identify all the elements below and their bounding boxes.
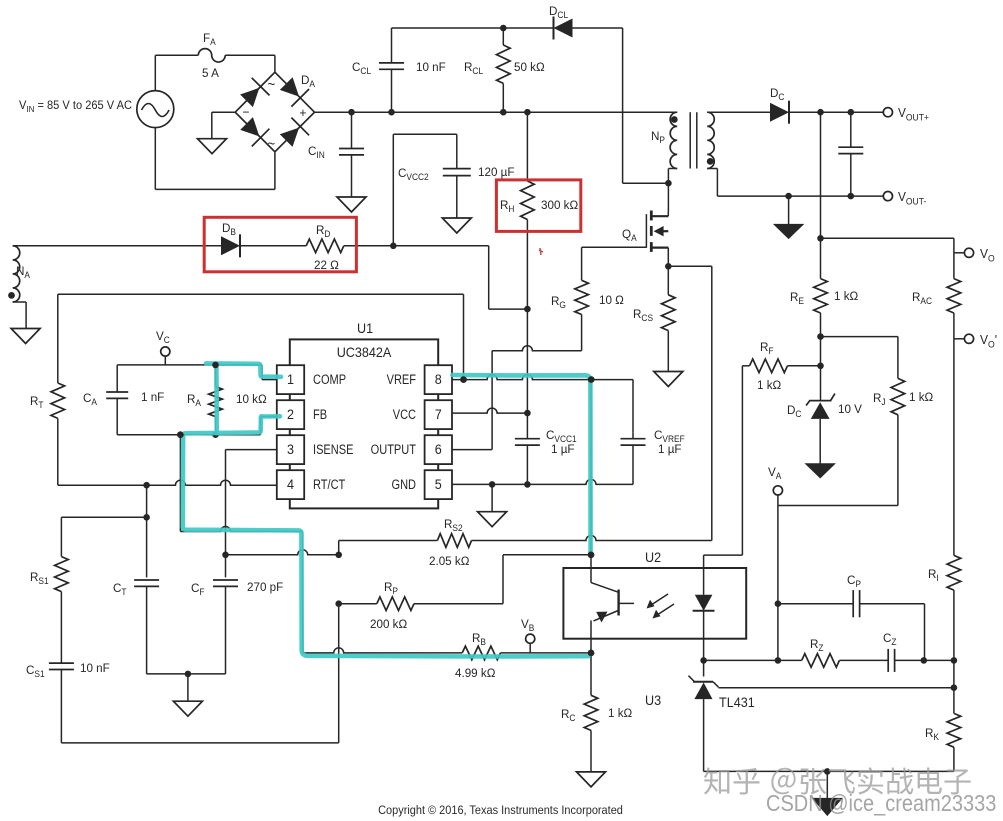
wire CZ to RI (924, 659, 954, 661)
label 50 kohm (514, 60, 545, 74)
terminal VO' (954, 334, 974, 343)
node CIN junction (348, 109, 355, 116)
wire VA net (778, 495, 898, 660)
svg-text:~: ~ (268, 136, 276, 151)
wire RS2 row (339, 541, 438, 555)
watermark csdn (766, 790, 996, 817)
wire VOUT- rail (789, 195, 883, 197)
bridge diode lower-left (240, 117, 269, 146)
resistor RK (947, 713, 961, 771)
label DC zener (787, 403, 801, 420)
wire NA bottom to ground (13, 302, 26, 329)
node RA bottom junction (212, 431, 219, 438)
node RF junction (817, 363, 824, 370)
diode DC output (770, 101, 789, 124)
svg-text:COMP: COMP (313, 372, 346, 387)
label VB (521, 617, 535, 634)
node over teal RB (588, 650, 595, 657)
label RF (760, 340, 774, 357)
wire RH to VCC (526, 220, 528, 414)
node primary-snubber junction (665, 180, 672, 187)
wire LED anode top (704, 555, 743, 568)
svg-text:10 V: 10 V (838, 402, 862, 416)
svg-text:U1: U1 (357, 321, 373, 336)
node RH bottom junction (524, 306, 531, 313)
label FA (203, 31, 216, 48)
label RS2 (444, 517, 463, 534)
resistor RT (51, 383, 65, 485)
wire VREF vertical (590, 380, 592, 568)
label RCL (464, 60, 483, 77)
wire gnd stem (187, 674, 189, 701)
capacitor CF (213, 580, 238, 674)
label 5 A (202, 66, 219, 80)
wire RZ row left (704, 659, 778, 661)
svg-text:1 µF: 1 µF (551, 442, 575, 456)
U1 pin name VREF (387, 372, 417, 387)
label CIN (308, 144, 325, 161)
svg-text:1 kΩ: 1 kΩ (909, 390, 933, 404)
resistor RJ (891, 378, 905, 414)
wire RG bottom (492, 315, 581, 351)
label U2 (645, 550, 661, 565)
wire RD node to RH (489, 246, 528, 309)
label RZ (810, 637, 824, 654)
ground below bridge (198, 139, 227, 154)
svg-text:50 kΩ: 50 kΩ (514, 60, 545, 74)
label CCL (352, 60, 371, 77)
capacitor CVCC1 (515, 413, 540, 484)
svg-text:270 pF: 270 pF (247, 580, 283, 594)
resistor RF (750, 359, 821, 373)
wire gate (582, 246, 647, 248)
svg-text:1: 1 (287, 372, 294, 387)
wire bottom loop (61, 604, 338, 743)
wire RS2 to sense (472, 536, 712, 541)
label 10 kohm (236, 392, 267, 406)
U1 pin name RT/CT (313, 477, 346, 492)
svg-text:VREF: VREF (387, 372, 417, 387)
ground below RCS (654, 372, 683, 387)
label DCL (549, 4, 568, 21)
capacitor CZ (888, 649, 924, 672)
ground below NA (11, 329, 40, 344)
label CVCC1 (546, 428, 577, 445)
svg-text:10 nF: 10 nF (416, 60, 446, 74)
label DC (770, 86, 784, 103)
node RB-RC junction (588, 650, 595, 657)
node RE-RJ junction (817, 333, 824, 340)
capacitor CVCC2 branch (393, 134, 471, 246)
label CP (847, 573, 861, 590)
wire FB net down (179, 435, 181, 532)
red tick mark (539, 248, 543, 255)
svg-text:VIN = 85 V to 265 V AC: VIN = 85 V to 265 V AC (19, 100, 132, 114)
svg-text:GND: GND (391, 477, 416, 492)
wire RZ to CZ (839, 659, 888, 661)
AC source VIN (137, 91, 174, 128)
label RJ value (909, 390, 933, 404)
label RB (472, 631, 486, 648)
wire secondary bottom (707, 169, 788, 197)
wire RE-top to VO branch (821, 238, 954, 278)
node RH top junction (524, 109, 531, 116)
node over teal collector (588, 552, 595, 559)
copyright text (378, 805, 623, 817)
label RF value (757, 378, 781, 392)
wire bottom gnd stem (826, 771, 828, 798)
resistor RP (377, 597, 414, 611)
svg-text:−: − (242, 105, 249, 119)
svg-text:1 kΩ: 1 kΩ (834, 289, 858, 303)
label 10 nF (416, 60, 446, 74)
aux winding NA (13, 246, 20, 302)
label DA (301, 73, 315, 90)
U1 pin name FB (313, 407, 327, 422)
svg-text:300 kΩ: 300 kΩ (541, 198, 578, 212)
wire VREF top loop (58, 294, 464, 383)
node over teal vref loop (460, 376, 467, 383)
wire RS1 to CS1 (60, 592, 62, 664)
node CF-RS2 junction (335, 552, 342, 559)
label RC value (608, 706, 632, 720)
bridge rectifier DA diamond (235, 72, 314, 152)
label RG (551, 294, 566, 311)
diode DB (221, 234, 240, 257)
svg-text:7: 7 (435, 407, 442, 422)
svg-text:4.99 kΩ: 4.99 kΩ (455, 666, 495, 680)
wire pin8 VREF (452, 375, 591, 380)
fuse FA (198, 49, 225, 62)
svg-text:FB: FB (313, 407, 327, 422)
red box around DB RD (204, 217, 356, 271)
resistor RD (306, 239, 344, 253)
node over teal pin8 (588, 376, 595, 383)
power ground below zener (806, 464, 835, 478)
wire VOUT- ground stem (788, 196, 790, 224)
svg-text:VCC: VCC (393, 407, 416, 422)
node RZ-VA junction (775, 657, 782, 664)
svg-text:~: ~ (268, 77, 276, 92)
node bottom gnd junction (824, 768, 831, 775)
label RJ (873, 391, 886, 408)
label RH (500, 198, 514, 215)
label RA (187, 392, 201, 409)
label QA (622, 227, 637, 244)
resistor RE (814, 279, 828, 313)
wire primary bottom to QA drain (667, 183, 669, 211)
wire RP right to collector (414, 555, 590, 604)
transformer primary NP winding (670, 112, 677, 168)
node VOUT- b (848, 193, 855, 200)
svg-text:200 kΩ: 200 kΩ (370, 617, 407, 631)
wire pin4 RT/CT (58, 480, 277, 485)
node CCL junction (388, 109, 395, 116)
wire RB to emitter node (501, 652, 592, 654)
label VO (980, 247, 995, 264)
wire main bus (315, 111, 678, 113)
U1 pin 7 box (425, 400, 452, 429)
node RCL bottom junction (500, 109, 507, 116)
svg-text:6: 6 (435, 442, 442, 457)
node collector junction (588, 552, 595, 559)
node ref-RK junction (951, 684, 958, 691)
wire bus to RH (526, 112, 528, 181)
ground below RC (577, 772, 606, 787)
teal highlight COMP path (206, 363, 281, 376)
node RS1 junction (143, 514, 150, 521)
resistor RI (947, 555, 961, 660)
svg-text:2.05 kΩ: 2.05 kΩ (429, 554, 469, 568)
optocoupler U2 box (563, 568, 746, 639)
terminal VA (773, 486, 782, 495)
terminal VOUT+ (883, 108, 892, 117)
opto LED (693, 568, 715, 639)
svg-text:10 Ω: 10 Ω (599, 293, 624, 307)
svg-text:10 kΩ: 10 kΩ (236, 392, 267, 406)
svg-text:Copyright © 2016, Texas Instru: Copyright © 2016, Texas Instruments Inco… (378, 805, 623, 817)
terminal VB (526, 634, 535, 653)
svg-text:1 kΩ: 1 kΩ (757, 378, 781, 392)
node RCL top junction (500, 25, 507, 32)
wire RF left down (742, 366, 749, 555)
wire pin5 GND (452, 479, 633, 484)
label 10 nF (80, 661, 110, 675)
U1 pin 8 number (435, 372, 442, 387)
wire pin7 VCC (452, 408, 527, 413)
capacitor CIN (339, 112, 364, 197)
svg-text:4: 4 (287, 477, 294, 492)
label VIN = 85 V to 265 V AC (19, 100, 132, 114)
bridge diode lower-right (280, 118, 309, 147)
label RD (316, 223, 330, 240)
label 22 ohm (314, 258, 339, 272)
svg-text:UC3842A: UC3842A (337, 345, 392, 360)
node QA source junction (665, 263, 672, 270)
ground below CIN (337, 197, 366, 212)
label 300 kohm (541, 198, 578, 212)
U1 pin 2 number (287, 407, 294, 422)
svg-text:5: 5 (435, 477, 442, 492)
wire to RJ (821, 337, 898, 379)
label DB (222, 221, 236, 238)
wire VREF to CVREF (591, 380, 633, 433)
bridge diode upper-left (240, 78, 269, 107)
TL431 U3 symbol (689, 676, 719, 772)
U1 pin name GND (391, 477, 416, 492)
svg-text:OUTPUT: OUTPUT (371, 442, 417, 457)
resistor RC (584, 653, 598, 772)
resistor RH (521, 181, 535, 220)
transformer primary phase dot (671, 116, 678, 123)
wire secondary top (707, 111, 770, 113)
wire RD to CVCC2 node (344, 245, 489, 247)
transformer secondary phase dot (707, 158, 714, 165)
node over teal RA top (212, 362, 219, 369)
wire ac-top-left (155, 55, 198, 90)
resistor RS2 (437, 534, 471, 548)
wire CF to RS2 vert (226, 550, 339, 555)
wire VOUT+ down to RE (820, 112, 822, 278)
teal highlight FB path (183, 416, 589, 656)
label 10 ohm (599, 293, 624, 307)
node CF top junction (222, 552, 229, 559)
resistor RCS (662, 266, 676, 371)
resistor RA (209, 365, 223, 435)
label 10 V (838, 402, 862, 416)
wire DB to RD (240, 245, 306, 247)
node GND sym junction (489, 481, 496, 488)
wire LED cathode to TL431 (703, 639, 705, 677)
resistor RAC (947, 279, 961, 313)
power ground bottom right (813, 798, 842, 815)
U1 pin name OUTPUT (371, 442, 417, 457)
wire DC to VOUT+ (789, 111, 883, 113)
capacitor CT (134, 580, 159, 674)
resistor RG (575, 280, 589, 314)
node RI bottom junction (951, 657, 958, 664)
svg-text:RT/CT: RT/CT (313, 477, 346, 492)
wire CA-RA top (117, 365, 277, 380)
svg-text:10 nF: 10 nF (80, 661, 110, 675)
label NA (16, 264, 30, 281)
wire ac-bottom (155, 128, 275, 190)
label U1 (357, 321, 373, 336)
wire primary bottom (668, 169, 677, 184)
power ground VOUT- (774, 224, 803, 238)
wire zener to ground (819, 419, 821, 464)
teal highlight VREF path (453, 375, 591, 555)
svg-text:CSDN @ice_cream23333: CSDN @ice_cream23333 (766, 790, 996, 817)
label RCS (633, 307, 653, 324)
node FB divider junction (177, 431, 184, 438)
node CT-CF gnd junction (185, 671, 192, 678)
wire CT-CF bottom (147, 673, 226, 675)
label CF (191, 581, 205, 598)
label 200 kohm (370, 617, 407, 631)
label RS1 (30, 570, 49, 587)
label VA (768, 465, 782, 482)
svg-text:1 nF: 1 nF (141, 390, 164, 404)
watermark zhihu (703, 766, 972, 799)
U1 pin name COMP (313, 372, 346, 387)
label RB value (455, 666, 495, 680)
capacitor CS1 (49, 663, 74, 743)
U1 pin 7 number (435, 407, 442, 422)
transformer secondary NS winding (707, 112, 714, 168)
label 120 uF (478, 165, 514, 179)
label CVCC2 (398, 166, 429, 183)
node RE top junction (817, 235, 824, 242)
U1 pin 5 number (435, 477, 442, 492)
U1 pin 3 box (277, 435, 304, 464)
resistor RCL (497, 28, 511, 112)
node RA top junction (212, 362, 219, 369)
U1 pin 4 box (277, 470, 304, 499)
wire opto emitter to RB node (590, 639, 592, 653)
capacitor COUT (838, 112, 863, 196)
node VOUT+ a (817, 109, 824, 116)
ground below CT-CF (173, 701, 202, 716)
U1 pin 4 number (287, 477, 294, 492)
wire NA to DB (13, 245, 221, 247)
resistor RS1 (55, 557, 69, 592)
U1 pin 6 box (425, 435, 452, 464)
label UC3842A (337, 345, 392, 360)
label RE (790, 290, 804, 307)
node over teal FB div (177, 431, 184, 438)
node VCC junction (524, 410, 531, 417)
svg-text:TL431: TL431 (719, 695, 755, 710)
node TL431 cathode junction (700, 657, 707, 664)
wire RI-ref (953, 660, 955, 713)
U1 pin name ISENSE (313, 442, 353, 457)
svg-text:120 µF: 120 µF (478, 165, 514, 179)
svg-text:1 kΩ: 1 kΩ (608, 706, 632, 720)
bridge diode upper-right (280, 77, 309, 106)
svg-text:1 µF: 1 µF (658, 442, 682, 456)
mosfet QA (646, 211, 668, 267)
node VA-CP junction (775, 600, 782, 607)
label RP (384, 580, 398, 597)
svg-text:U2: U2 (645, 550, 661, 565)
capacitor CA (106, 365, 128, 435)
label CVREF value (658, 442, 682, 456)
svg-text:2: 2 (287, 407, 294, 422)
label RT (30, 394, 44, 411)
label RS2 value (429, 554, 469, 568)
label U3 (645, 693, 661, 708)
node CVCC1 gnd junction (524, 481, 531, 488)
wire RE bottom (820, 313, 822, 400)
capacitor CCL (379, 28, 404, 112)
label VOUT- (898, 190, 926, 207)
opto light arrows (647, 594, 675, 619)
teal highlight RA body (214, 367, 219, 434)
wire snubber top (392, 27, 553, 29)
U1 pin 5 box (425, 470, 452, 499)
U1 pin 1 number (287, 372, 294, 387)
label CA (83, 391, 97, 408)
wire fuse to bridge top (225, 55, 275, 72)
label VC (156, 329, 170, 346)
resistor RB (462, 646, 500, 660)
U1 pin 1 box (277, 365, 304, 394)
svg-text:ISENSE: ISENSE (313, 442, 353, 457)
svg-text:U3: U3 (645, 693, 661, 708)
wire pin6 OUTPUT (452, 351, 492, 450)
zener DC 10V (806, 394, 835, 419)
svg-text:+: + (299, 106, 306, 120)
node CZ-CP junction (921, 657, 928, 664)
node RD-CVCC2 junction (390, 243, 397, 250)
wire RJ bottom to VA wire (897, 415, 899, 506)
wire bridge minus to ground (212, 112, 235, 139)
wire pin3 ISENSE (226, 450, 277, 578)
U1 pin name VCC (393, 407, 416, 422)
wire bottom right (704, 770, 954, 772)
label RC (561, 707, 575, 724)
terminal VO (954, 248, 974, 257)
label CZ (883, 631, 897, 648)
ground below U1 GND (478, 512, 507, 527)
label VOUT+ (898, 106, 929, 123)
wire TL431 ref (719, 687, 954, 689)
node VOUT- gnd (785, 193, 792, 200)
label 270 pF (247, 580, 283, 594)
bridge polarity marks (242, 77, 306, 152)
svg-text:22 Ω: 22 Ω (314, 258, 339, 272)
